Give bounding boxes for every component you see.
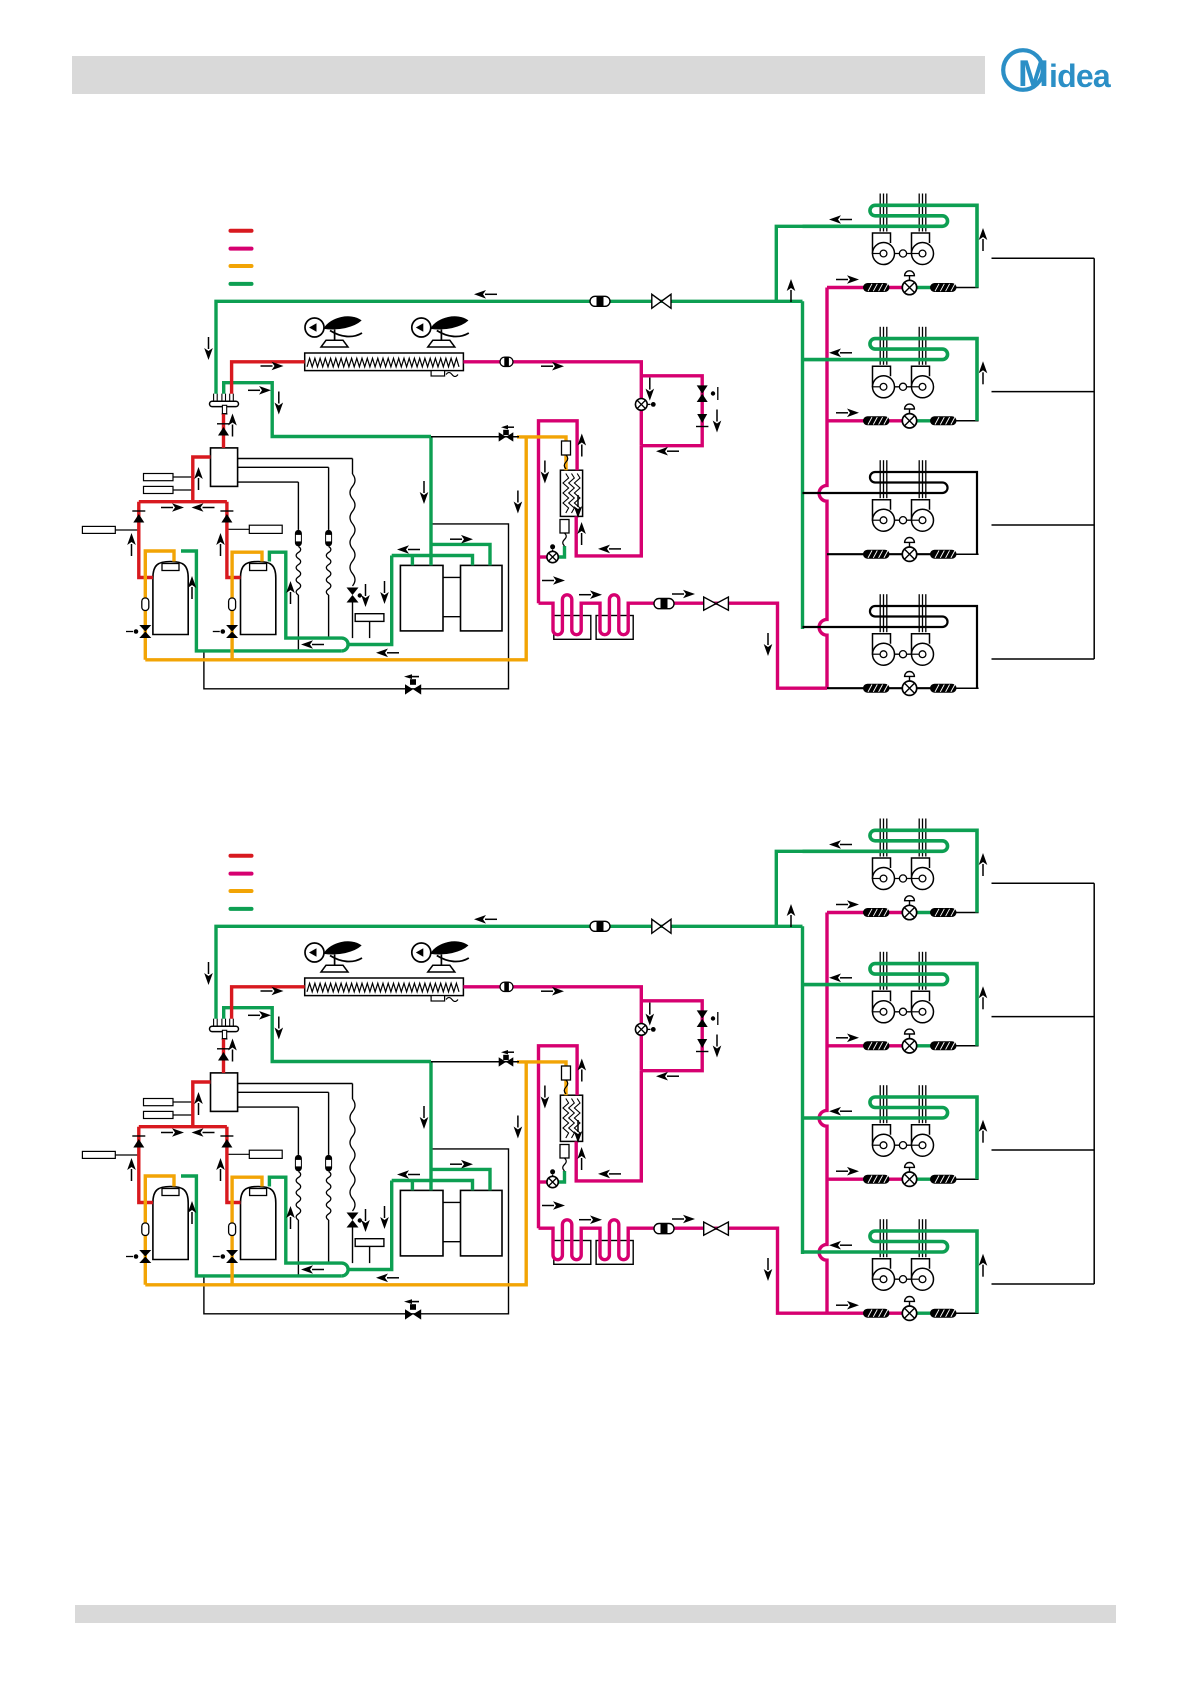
svg-text:idea: idea [1049, 58, 1111, 94]
svg-text:M: M [1018, 53, 1049, 94]
